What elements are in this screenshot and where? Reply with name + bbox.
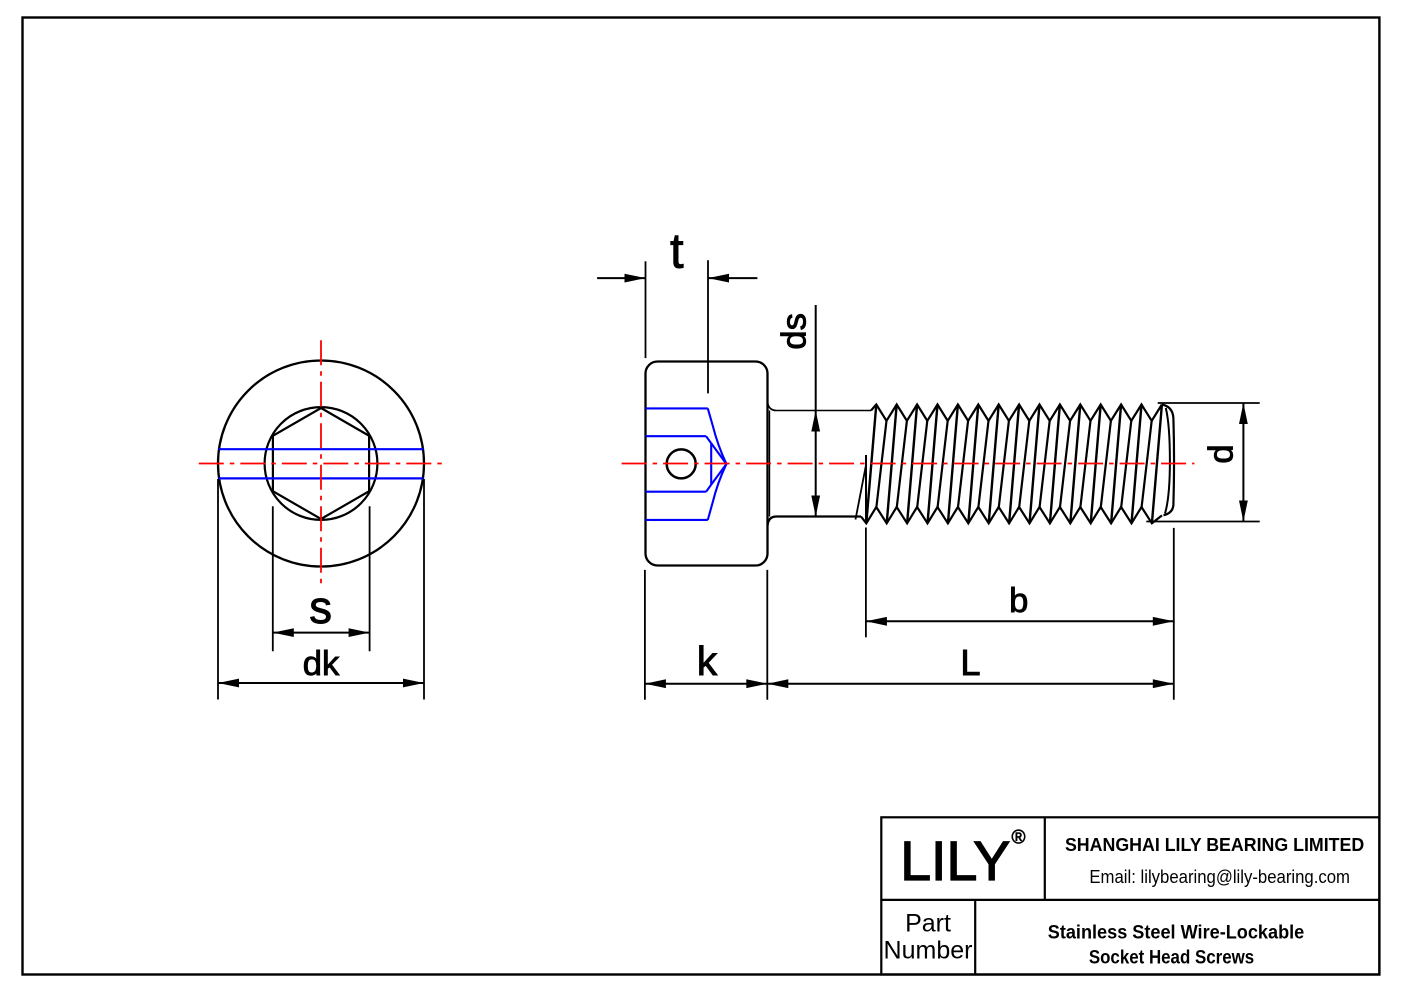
svg-text:ds: ds: [776, 313, 814, 349]
thread: end chamfer outer edge: [1162, 405, 1174, 516]
dimension d: dimension line with arrows: [1239, 403, 1248, 522]
front view: horizontal centerline (red): [199, 463, 444, 465]
dimension s: dimension line with arrows: [273, 628, 370, 637]
svg-text:®: ®: [1012, 828, 1026, 849]
dimension b: dimension line with arrows: [866, 617, 1174, 626]
dimension dk: extension lines: [218, 479, 424, 700]
svg-text:SHANGHAI LILY BEARING LIMITED: SHANGHAI LILY BEARING LIMITED: [1065, 835, 1364, 855]
svg-text:LILY: LILY: [900, 830, 1010, 892]
svg-text:Part: Part: [905, 910, 951, 938]
dimension k: dimension line with arrows: [645, 679, 767, 688]
dimension t: dimension line with outside arrows: [597, 274, 757, 283]
svg-text:dk: dk: [303, 645, 340, 683]
dimension t: extension lines: [646, 260, 709, 393]
title block frame: [881, 817, 1379, 974]
side view: horizontal centerline (red): [622, 463, 1195, 465]
front view: head outer circle: [218, 361, 424, 567]
front view: vertical centerline (red): [320, 340, 322, 588]
svg-text:L: L: [960, 642, 980, 683]
front view: wire hole line upper (blue): [219, 448, 424, 450]
thread: root flank lines: [876, 421, 1151, 507]
svg-text:Email: lilybearing@lily-bearin: Email: lilybearing@lily-bearing.com: [1089, 867, 1350, 888]
front view: hex socket: [273, 408, 369, 519]
svg-text:Number: Number: [884, 937, 973, 965]
dimension ds: dimension line with arrows: [811, 305, 820, 517]
thread: start runout vertical: [865, 455, 867, 523]
side view: shank top outline: [768, 402, 872, 411]
svg-text:Socket Head Screws: Socket Head Screws: [1089, 947, 1254, 968]
dimension b: extension lines: [866, 528, 1174, 700]
svg-text:s: s: [309, 582, 332, 633]
svg-text:Stainless Steel Wire-Lockable: Stainless Steel Wire-Lockable: [1048, 923, 1305, 944]
side view: hex socket hidden lines (blue): [646, 408, 727, 520]
thread: crest flank lines: [866, 405, 1162, 524]
thread: bottom crest outline: [861, 507, 1162, 523]
side view: head/shank junction line: [769, 411, 771, 517]
side view: shank bottom outline: [768, 517, 862, 526]
svg-text:b: b: [1009, 582, 1028, 620]
side view: wire hole circle: [667, 449, 696, 478]
thread: top crest outline: [871, 405, 1162, 421]
dimension L: dimension line with arrows: [767, 679, 1174, 688]
dimension d: extension lines: [1146, 403, 1259, 522]
svg-text:k: k: [697, 638, 718, 684]
svg-text:d: d: [1203, 444, 1241, 463]
thread: start runout diagonal: [856, 465, 867, 520]
side view: screw head outline: [646, 362, 768, 566]
thread: end chamfer inner edge: [1165, 408, 1170, 514]
svg-text:t: t: [670, 225, 684, 279]
dimension k: extension lines: [645, 570, 767, 700]
front view: wire hole line lower (blue): [219, 477, 424, 479]
front view: socket circle: [265, 407, 378, 520]
dimension s: extension lines: [273, 506, 370, 651]
dimension dk: dimension line with arrows: [218, 679, 424, 688]
